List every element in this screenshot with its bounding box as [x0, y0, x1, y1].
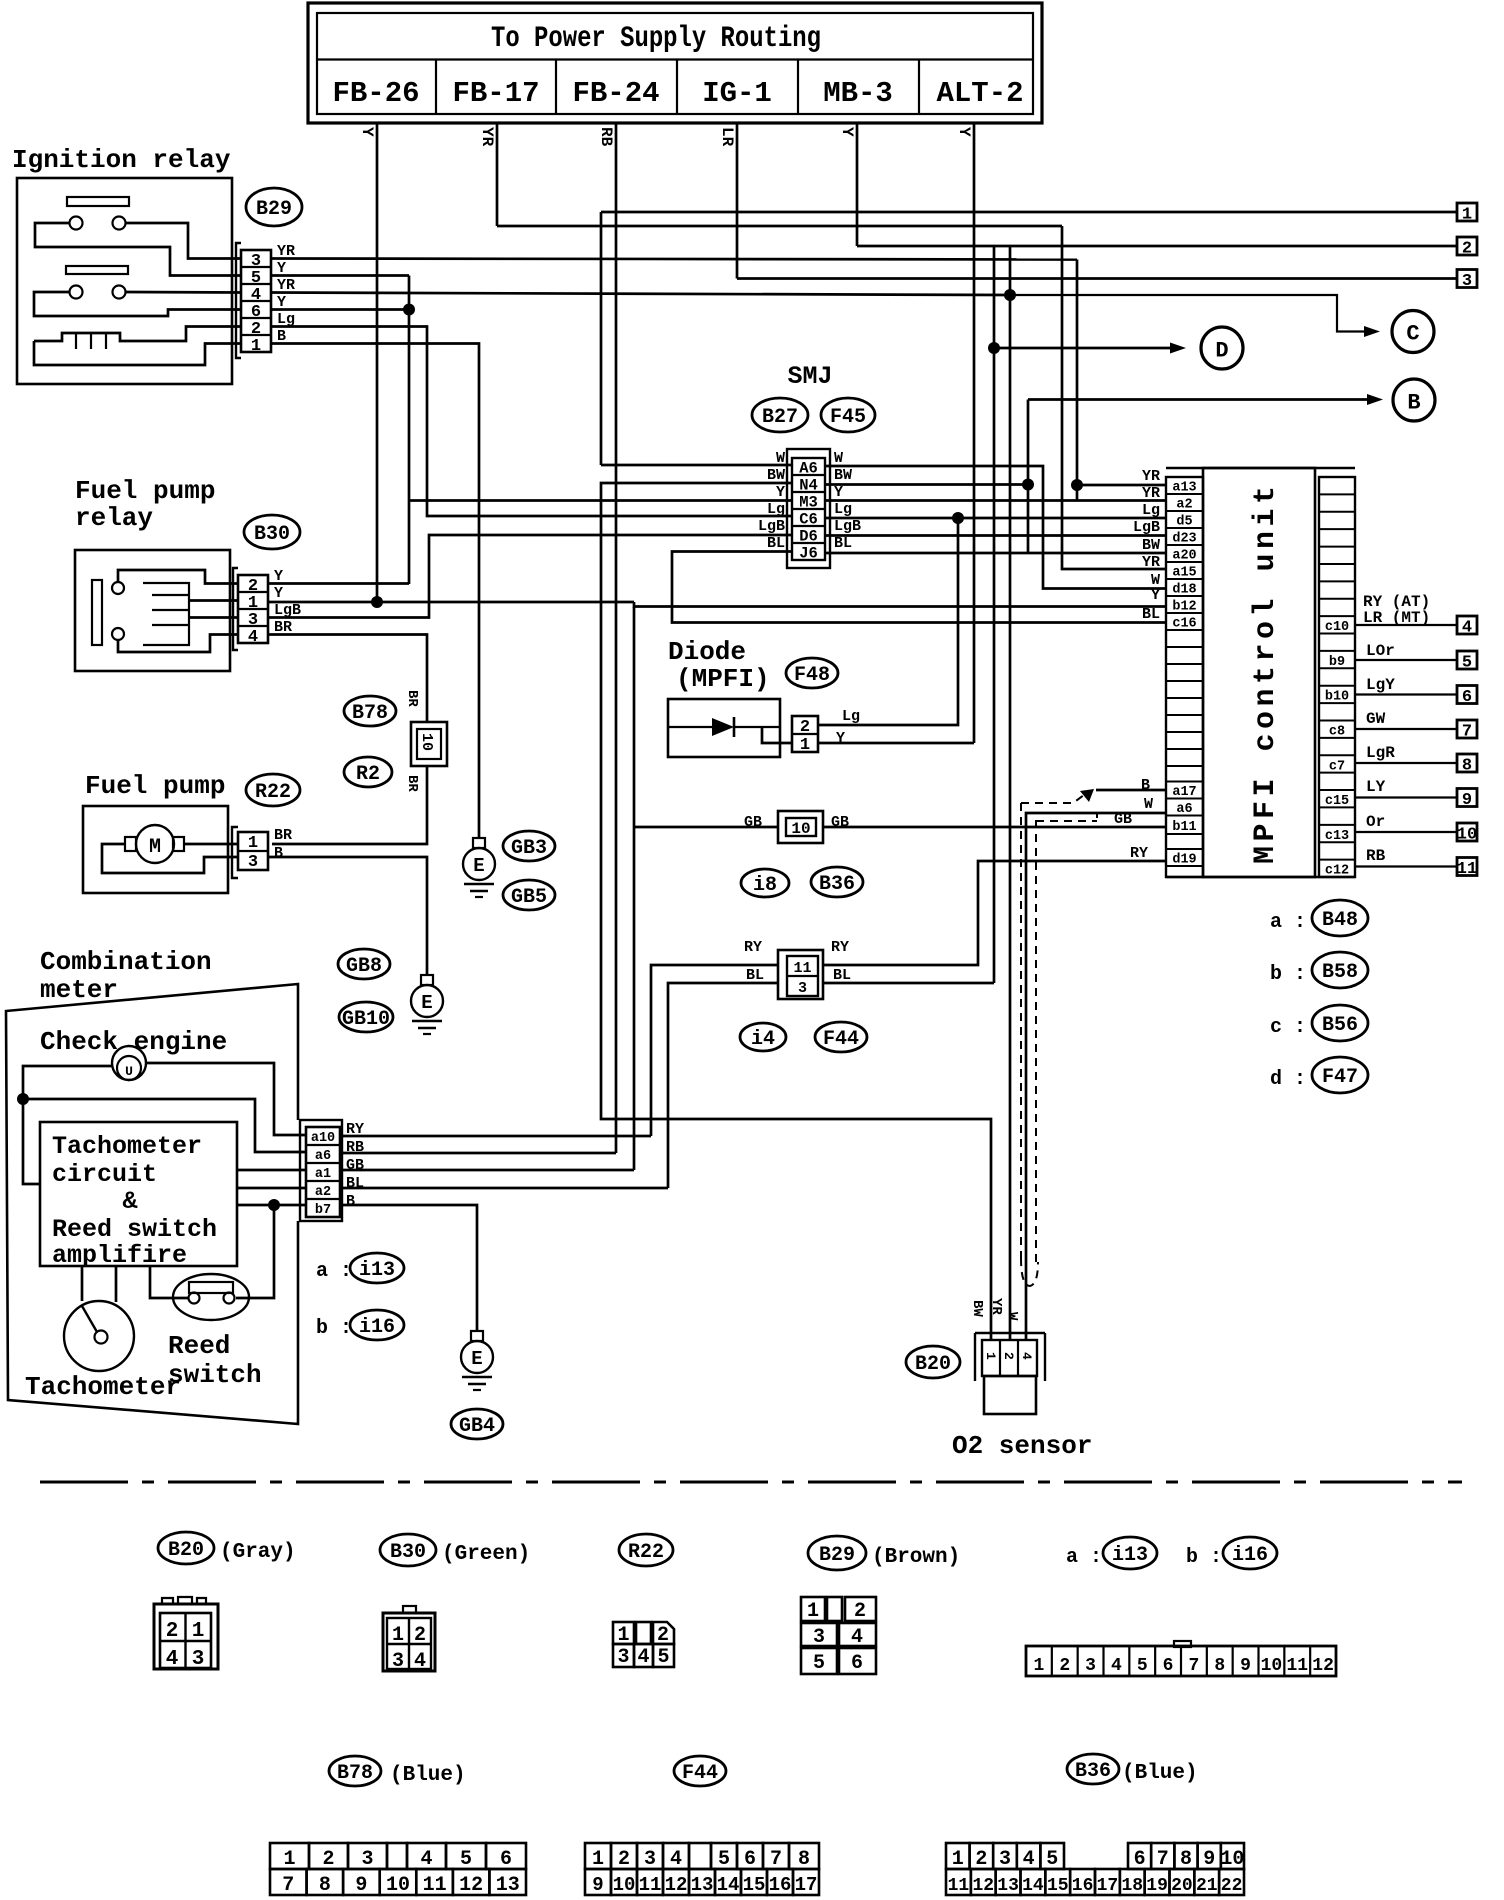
wire BR relay pin4 down to resistor — [268, 635, 427, 723]
svg-text:LOr: LOr — [1366, 642, 1395, 660]
wire W A6 right to MPFI d18 — [825, 466, 1166, 589]
svg-text:LR (MT): LR (MT) — [1363, 609, 1430, 627]
svg-text:BR: BR — [404, 775, 420, 792]
svg-text:BR: BR — [274, 827, 292, 844]
svg-text:3: 3 — [392, 1650, 404, 1673]
svg-text:16: 16 — [1072, 1876, 1094, 1896]
svg-text:LgY: LgY — [1366, 676, 1395, 694]
svg-text:amplifire: amplifire — [52, 1241, 187, 1270]
wire GB right to MPFI b11 — [823, 826, 1166, 829]
svg-text:4: 4 — [1023, 1848, 1035, 1871]
wire lamp right to a10 — [146, 1063, 306, 1135]
svg-text:E: E — [421, 992, 432, 1014]
svg-text:a2: a2 — [315, 1185, 331, 1200]
svg-text:Lg: Lg — [834, 501, 852, 518]
diode box — [668, 699, 780, 757]
svg-text:LgB: LgB — [834, 518, 861, 535]
wire C-net from dot to C arrow — [1010, 295, 1366, 332]
wire YR ign pin3 across to x=1077 — [271, 259, 1077, 260]
svg-text:4: 4 — [670, 1848, 682, 1871]
fuel pump connector cells 1 3 — [238, 832, 268, 870]
svg-text:a6: a6 — [315, 1149, 331, 1164]
svg-text:B20: B20 — [915, 1353, 951, 1376]
svg-text:21: 21 — [1196, 1876, 1218, 1896]
junction dot Lg diode — [952, 512, 964, 524]
wire BL right to D-net vertical — [823, 982, 994, 985]
svg-text:5: 5 — [1137, 1656, 1148, 1676]
svg-text:9: 9 — [592, 1874, 603, 1896]
wire B fuel pump pin3 to ground — [268, 857, 427, 975]
svg-text:W: W — [776, 450, 785, 467]
wire W: vertical x=601 from terminal-1 line to SMJ A6 — [600, 212, 603, 465]
svg-text:MB-3: MB-3 — [823, 77, 893, 110]
connector R2 oval — [344, 757, 392, 787]
svg-text:B: B — [1141, 777, 1150, 794]
svg-text:YR: YR — [1142, 468, 1160, 485]
svg-text:Reed: Reed — [168, 1331, 230, 1361]
svg-text:10: 10 — [1261, 1656, 1283, 1676]
svg-text:2: 2 — [1462, 240, 1472, 259]
ignition relay contact bar 2 — [66, 266, 128, 274]
fuel pump internal wire loop — [102, 844, 238, 873]
fuel pump relay coil box — [143, 583, 189, 645]
svg-text:C: C — [1406, 322, 1419, 347]
ground E3 — [471, 1331, 483, 1341]
svg-text:11: 11 — [1286, 1656, 1308, 1676]
svg-text:a1: a1 — [315, 1167, 331, 1182]
svg-text:a :: a : — [316, 1260, 352, 1283]
svg-text:LgB: LgB — [758, 518, 785, 535]
wire W from O2 sensor to MPFI a6 — [1026, 813, 1166, 1340]
wire YR vertical x=1062 to a15 — [1062, 226, 1166, 569]
svg-text:BL: BL — [767, 535, 785, 552]
svg-text:a :: a : — [1066, 1546, 1102, 1569]
svg-text:B56: B56 — [1322, 1014, 1358, 1037]
svg-text:10: 10 — [386, 1874, 410, 1897]
svg-text:(Gray): (Gray) — [220, 1541, 296, 1564]
svg-text:1: 1 — [952, 1848, 964, 1871]
svg-text:1: 1 — [192, 1620, 205, 1643]
svg-text:RY: RY — [831, 939, 849, 956]
svg-text:6: 6 — [500, 1848, 512, 1871]
svg-text:Lg: Lg — [1142, 502, 1160, 519]
svg-text:(Blue): (Blue) — [390, 1764, 466, 1787]
B30 pin diagram — [383, 1613, 435, 1671]
ignition relay wire contact2 to pin 3 — [126, 223, 242, 259]
wire vertical x=1010 MB-3 to O2 sensor YR — [1009, 246, 1012, 1340]
svg-text:3: 3 — [798, 980, 807, 997]
connector B29 oval bottom — [808, 1536, 866, 1570]
svg-text:7: 7 — [770, 1848, 782, 1871]
ignition relay coil — [34, 327, 241, 342]
svg-text:(Brown): (Brown) — [872, 1546, 960, 1569]
connector B78 oval — [344, 696, 396, 726]
combination meter connector frame — [300, 1120, 342, 1221]
svg-text:B: B — [274, 845, 283, 862]
svg-text:1: 1 — [800, 736, 810, 755]
svg-text:R2: R2 — [356, 763, 380, 786]
svg-text:11: 11 — [639, 1874, 662, 1896]
wire box to a2 — [237, 1187, 306, 1190]
wire LR to terminal 3 — [737, 277, 1458, 280]
wire Lg ign pin2 — [271, 327, 792, 517]
wire BW N4 right to junction — [825, 483, 1028, 486]
svg-text:b :: b : — [316, 1317, 352, 1340]
svg-text:7: 7 — [1189, 1656, 1200, 1676]
wire LR from IG-1 — [736, 123, 739, 279]
svg-text:Y: Y — [838, 127, 856, 137]
svg-text:16: 16 — [769, 1874, 792, 1896]
svg-text:switch: switch — [168, 1360, 262, 1390]
wire reed switch right terminal — [236, 1205, 274, 1298]
connector B36 oval — [811, 867, 863, 897]
svg-text:8: 8 — [798, 1848, 810, 1871]
wire LgB D6 right to MPFI d23 — [825, 534, 1166, 537]
svg-text:B: B — [346, 1193, 355, 1210]
svg-text:9: 9 — [1240, 1656, 1251, 1676]
wire Y relay pin2 — [268, 582, 409, 585]
wire BR resistor to fuel pump pin1 — [272, 766, 427, 844]
svg-text:(Blue): (Blue) — [1122, 1762, 1198, 1785]
ignition relay wire contact1 to pin 5 — [35, 223, 241, 276]
svg-text:a :: a : — [1270, 911, 1306, 934]
fuel pump relay contacts — [112, 582, 124, 594]
svg-text:5: 5 — [718, 1848, 730, 1871]
svg-text:BL: BL — [1142, 606, 1160, 623]
svg-text:E: E — [473, 855, 484, 877]
svg-text:c12: c12 — [1325, 864, 1349, 879]
svg-text:YR: YR — [988, 1298, 1004, 1315]
svg-text:22: 22 — [1221, 1876, 1243, 1896]
svg-text:15: 15 — [743, 1874, 766, 1896]
svg-text:4: 4 — [1462, 619, 1472, 638]
tachometer circuit box — [40, 1122, 237, 1266]
wire lamp left to a6 via dot — [23, 1066, 112, 1184]
svg-text:i13: i13 — [1112, 1544, 1148, 1567]
wire BL comb meter a2 up to connector 3 — [668, 983, 778, 1188]
svg-text:11: 11 — [948, 1876, 970, 1896]
wire GB comb meter a1 up and right to MPFI b11 — [633, 607, 636, 1170]
svg-text:SMJ: SMJ — [787, 362, 832, 391]
svg-text:GB4: GB4 — [459, 1415, 495, 1438]
svg-text:14: 14 — [1022, 1876, 1044, 1896]
svg-text:(Green): (Green) — [442, 1543, 530, 1566]
svg-text:5: 5 — [1046, 1848, 1058, 1871]
svg-text:GW: GW — [1366, 710, 1386, 728]
svg-text:B30: B30 — [390, 1541, 426, 1564]
svg-text:10: 10 — [1457, 826, 1477, 845]
svg-text:3: 3 — [1462, 272, 1472, 291]
svg-text:4: 4 — [1111, 1656, 1122, 1676]
svg-text:RB: RB — [597, 127, 615, 147]
svg-text:14: 14 — [717, 1874, 740, 1896]
svg-text:Tachometer: Tachometer — [52, 1132, 202, 1161]
svg-text:B78: B78 — [352, 702, 388, 725]
svg-text:GB8: GB8 — [346, 955, 382, 978]
svg-text:F45: F45 — [830, 406, 866, 429]
svg-text:5: 5 — [460, 1848, 472, 1871]
svg-text:1: 1 — [1034, 1656, 1045, 1676]
connector B20 oval — [906, 1346, 960, 1378]
svg-text:RY: RY — [744, 939, 762, 956]
svg-text:c :: c : — [1270, 1016, 1306, 1039]
svg-text:MPFI control unit: MPFI control unit — [1249, 486, 1283, 864]
wire B b7 to ground E — [340, 1205, 477, 1331]
power supply routing box — [308, 3, 1042, 123]
wire YR horizontal to junction x=1062 — [497, 225, 1062, 228]
svg-text:relay: relay — [75, 503, 153, 533]
wire RY a10 outside — [340, 1135, 651, 1138]
svg-text:b :: b : — [1270, 963, 1306, 986]
svg-text:D: D — [1215, 339, 1228, 364]
connector B78 oval bottom — [329, 1756, 381, 1786]
wire W to terminal 1 — [601, 211, 1458, 214]
connector i4 oval — [740, 1023, 786, 1051]
svg-text:B36: B36 — [819, 873, 855, 896]
svg-text:YR: YR — [1142, 554, 1160, 571]
svg-text:BR: BR — [404, 690, 420, 707]
svg-text:3: 3 — [813, 1626, 825, 1649]
wire Y M3 row from x=409 into SMJ — [409, 499, 792, 502]
svg-text:R22: R22 — [255, 781, 291, 804]
reed switch — [173, 1274, 249, 1320]
svg-text:B29: B29 — [256, 198, 292, 221]
svg-text:12: 12 — [1312, 1656, 1334, 1676]
svg-text:8: 8 — [319, 1874, 331, 1897]
svg-text:1: 1 — [392, 1624, 404, 1647]
svg-text:E: E — [471, 1348, 482, 1370]
junction dot Y pin1 — [371, 596, 383, 608]
svg-text:GB10: GB10 — [342, 1008, 390, 1031]
svg-text:11: 11 — [423, 1874, 447, 1897]
svg-text:O2 sensor: O2 sensor — [952, 1431, 1092, 1461]
B20 pin diagram — [154, 1604, 218, 1669]
wire YR into a13 — [1077, 484, 1166, 487]
connector B27 oval — [752, 398, 808, 432]
combination meter connector cells — [306, 1127, 340, 1217]
svg-text:Y: Y — [776, 484, 785, 501]
wire BL J6 left loop — [672, 552, 1166, 623]
ignition relay box — [17, 178, 232, 384]
svg-text:2: 2 — [1059, 1656, 1070, 1676]
svg-text:3: 3 — [617, 1646, 629, 1669]
junction dot BW — [1022, 479, 1034, 491]
svg-text:1: 1 — [1462, 206, 1472, 225]
MPFI right pin ladder — [1319, 477, 1355, 877]
wire GB a1 outside — [340, 1169, 634, 1172]
O2 sensor body — [984, 1376, 1036, 1414]
wire Y diode pin1 to ALT-2 wire — [818, 742, 974, 745]
junction dot D-net — [988, 342, 1000, 354]
svg-text:GB: GB — [346, 1157, 364, 1174]
svg-text:2: 2 — [322, 1848, 334, 1871]
svg-text:Combination: Combination — [40, 947, 212, 977]
wire B ign pin1 down to ground — [271, 344, 479, 839]
svg-text:Reed switch: Reed switch — [52, 1215, 217, 1244]
svg-text:RB: RB — [1366, 847, 1386, 865]
wire RB a6 outside — [340, 1152, 616, 1155]
svg-text:FB-17: FB-17 — [452, 77, 539, 110]
svg-text:Or: Or — [1366, 813, 1385, 831]
svg-text:7: 7 — [1462, 723, 1472, 742]
wire Y M3 right to MPFI a2 — [825, 499, 1166, 502]
svg-text:4: 4 — [851, 1626, 863, 1649]
connector C circle — [1392, 311, 1434, 353]
wire Y ign pin6 — [271, 308, 409, 311]
svg-text:circuit: circuit — [52, 1160, 157, 1189]
svg-text:B36: B36 — [1075, 1760, 1111, 1783]
svg-text:GB5: GB5 — [511, 886, 547, 909]
wire W into SMJ A6 — [601, 464, 792, 467]
svg-text:GB: GB — [1114, 811, 1132, 828]
svg-text:Lg: Lg — [767, 501, 785, 518]
fuel pump box — [83, 806, 228, 893]
tachometer gauge — [64, 1301, 134, 1371]
svg-text:9: 9 — [1462, 791, 1472, 810]
wire RB from FB-24 down to combination meter a6 — [615, 123, 618, 1153]
svg-text:B30: B30 — [254, 523, 290, 546]
ignition relay wire contact2 to pin 4 — [126, 291, 242, 294]
svg-text:Ignition relay: Ignition relay — [12, 145, 231, 175]
svg-text:b :: b : — [1186, 1546, 1222, 1569]
shield dashed line left — [1020, 803, 1022, 1258]
svg-text:Y: Y — [955, 127, 973, 137]
fuel pump relay bar — [92, 580, 102, 645]
connector 10 box — [778, 811, 823, 843]
diode symbol — [668, 726, 712, 728]
wire box to b7 — [237, 1204, 306, 1207]
wire Y from ALT-2 down to diode pin 1 — [973, 123, 976, 743]
svg-text:5: 5 — [657, 1646, 669, 1669]
svg-text:10: 10 — [418, 733, 435, 751]
connector B36 oval bottom — [1067, 1754, 1119, 1784]
svg-text:Y: Y — [836, 730, 845, 747]
svg-text:Check engine: Check engine — [40, 1027, 227, 1057]
svg-text:15: 15 — [1047, 1876, 1069, 1896]
svg-text:Fuel pump: Fuel pump — [85, 771, 225, 801]
svg-text:6: 6 — [1134, 1848, 1146, 1871]
F44 pin diagram — [585, 1843, 611, 1869]
R22 pin diagram — [613, 1622, 634, 1644]
svg-text:YR: YR — [478, 127, 496, 147]
svg-text:1: 1 — [251, 337, 261, 356]
wire BL a2 outside — [340, 1187, 668, 1190]
ignition relay connector bracket — [236, 243, 241, 358]
junction dot C-net — [1004, 289, 1016, 301]
fuel pump motor — [136, 825, 174, 863]
svg-text:BW: BW — [767, 467, 785, 484]
svg-text:GB3: GB3 — [511, 837, 547, 860]
svg-text:3: 3 — [248, 853, 258, 872]
connector GB10 oval — [339, 1002, 393, 1032]
wire D-net vertical x=994 — [993, 246, 996, 983]
svg-text:2: 2 — [414, 1624, 426, 1647]
svg-text:BW: BW — [1142, 537, 1160, 554]
svg-text:4: 4 — [637, 1646, 649, 1669]
svg-text:B27: B27 — [762, 406, 798, 429]
connector B20 oval bottom — [158, 1532, 214, 1564]
svg-text:YR: YR — [1142, 485, 1160, 502]
svg-text:LY: LY — [1366, 778, 1386, 796]
svg-text:13: 13 — [496, 1874, 520, 1897]
junction dot b7 reed — [268, 1199, 280, 1211]
svg-text:6: 6 — [744, 1848, 756, 1871]
svg-text:1: 1 — [248, 834, 258, 853]
wire Y relay pin1 long to MPFI b12 — [268, 601, 634, 604]
wire reed switch left to box — [150, 1266, 188, 1298]
svg-text:W: W — [834, 450, 843, 467]
svg-text:R22: R22 — [628, 1541, 664, 1564]
connector F48 oval — [786, 658, 838, 688]
svg-text:4: 4 — [1019, 1352, 1034, 1360]
svg-text:1: 1 — [283, 1848, 295, 1871]
connector F45 oval — [821, 398, 875, 432]
connector GB8 oval — [338, 949, 390, 979]
svg-text:11: 11 — [793, 960, 811, 977]
connector 11-3 box — [778, 950, 823, 999]
connector B29 oval — [246, 188, 302, 226]
svg-text:4: 4 — [414, 1650, 426, 1673]
connector GB3 oval — [503, 831, 555, 861]
svg-text:6: 6 — [1462, 688, 1472, 707]
connector B circle — [1393, 379, 1435, 421]
svg-text:GB: GB — [744, 814, 762, 831]
combination meter outline — [6, 984, 298, 1424]
shield dashed line right — [1035, 820, 1037, 1262]
junction dot Y — [403, 304, 415, 316]
svg-text:b7: b7 — [315, 1203, 331, 1218]
svg-text:Y: Y — [274, 585, 283, 602]
wire Lg diode pin2 up to d5 line — [818, 518, 958, 725]
connector F44 oval — [815, 1022, 867, 1052]
wire YR vertical x=1077 to a13 and a2 — [1076, 260, 1079, 501]
ignition relay contact circles row 2 — [70, 286, 83, 299]
ignition relay wire contact1 to pin 6 — [34, 292, 241, 316]
svg-text:1: 1 — [983, 1352, 998, 1360]
svg-text:B: B — [1407, 391, 1420, 416]
wire Lg C6 right to MPFI d5 — [825, 517, 1166, 520]
svg-text:F47: F47 — [1322, 1066, 1358, 1089]
wire RY comb meter a10 up to connector 11 — [651, 965, 778, 1136]
MPFI control unit box — [1166, 467, 1355, 470]
svg-text:2: 2 — [800, 718, 810, 737]
svg-text:Y: Y — [1151, 587, 1160, 604]
svg-text:i13: i13 — [359, 1259, 395, 1282]
diode connector cells 2 1 — [792, 716, 818, 752]
connector R22 oval — [246, 774, 300, 806]
svg-text:i16: i16 — [1232, 1544, 1268, 1567]
wire BL J6 right to MPFI a20 — [825, 552, 1166, 555]
shield dashed hook — [1021, 1258, 1038, 1286]
wire YR from FB-17 — [496, 123, 499, 226]
svg-text:Y: Y — [358, 127, 376, 137]
ground E2 fuel pump — [421, 975, 433, 985]
svg-text:10: 10 — [1220, 1848, 1244, 1871]
svg-text:9: 9 — [1203, 1848, 1215, 1871]
svg-text:d :: d : — [1270, 1068, 1306, 1091]
svg-text:6: 6 — [1163, 1656, 1174, 1676]
connector i8 oval — [741, 869, 789, 897]
svg-text:IG-1: IG-1 — [702, 77, 772, 110]
gauge wires — [81, 1266, 84, 1301]
fuel pump relay connector bracket — [233, 568, 238, 650]
svg-text:7: 7 — [282, 1874, 294, 1897]
terminal 1 — [1457, 203, 1477, 221]
connector D circle — [1201, 327, 1243, 369]
check engine lamp — [112, 1046, 146, 1080]
wire Y from MB-3 — [856, 123, 859, 246]
svg-text:2: 2 — [1001, 1352, 1016, 1360]
